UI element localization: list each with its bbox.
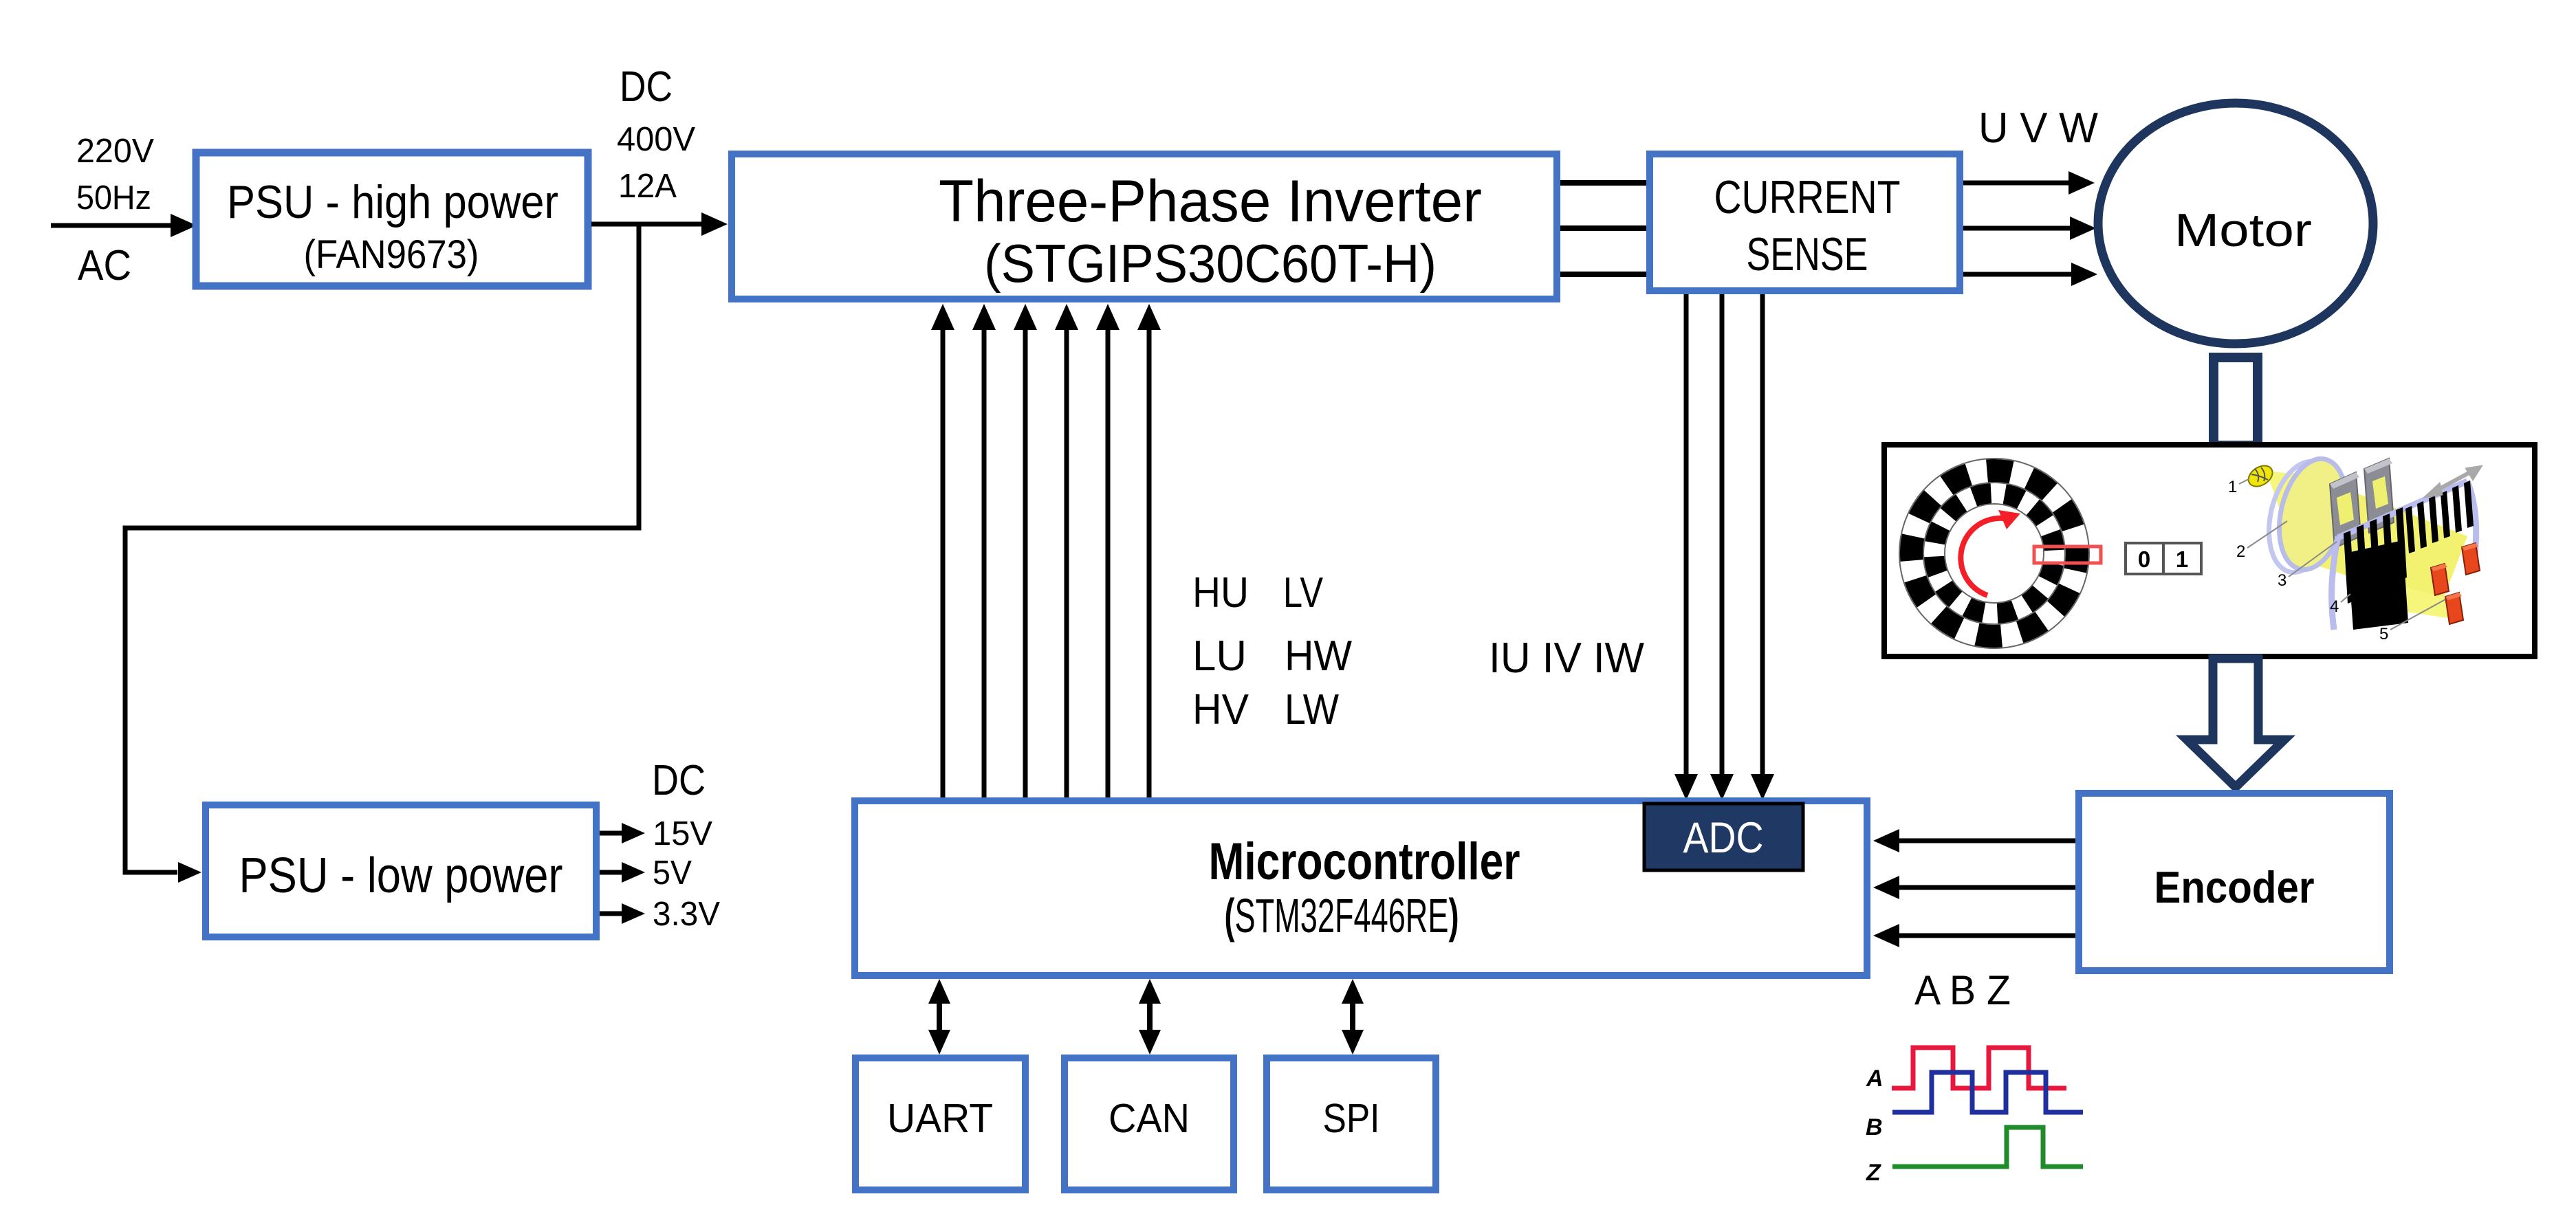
svg-text:PSU - high power: PSU - high power <box>227 176 558 228</box>
wire gate signal HU MCU to inverter <box>931 304 954 797</box>
beam to lower detector <box>2381 582 2455 619</box>
mask plates (3) <box>2330 459 2394 548</box>
motion double arrow <box>2423 465 2482 498</box>
svg-text:2: 2 <box>2236 542 2245 561</box>
svg-text:1: 1 <box>2228 478 2237 496</box>
svg-text:15V: 15V <box>653 815 712 852</box>
svg-text:HU: HU <box>1192 569 1249 617</box>
wire phase V inverter to current sense <box>1560 225 1646 231</box>
block ADC peripheral <box>1644 804 1803 870</box>
svg-text:3: 3 <box>2278 571 2286 590</box>
red sensor window rectangle <box>2034 547 2101 563</box>
wire MCU to CAN bidirectional <box>1139 979 1161 1055</box>
block Microcontroller (STM32F446RE) <box>855 801 1867 975</box>
svg-text:SENSE: SENSE <box>1747 228 1868 280</box>
photodetectors (5) <box>2431 543 2480 624</box>
block Three-Phase Inverter (STGIPS30C60T-H) <box>732 154 1557 299</box>
block SPI <box>1267 1058 1436 1190</box>
svg-text:Three-Phase Inverter: Three-Phase Inverter <box>939 168 1482 234</box>
encoder code disk <box>1899 459 2089 648</box>
svg-text:(FAN9673): (FAN9673) <box>304 232 479 277</box>
wire phase V to motor <box>1963 217 2096 240</box>
svg-text:(STGIPS30C60T-H): (STGIPS30C60T-H) <box>984 233 1437 294</box>
lens (2) <box>2259 452 2357 579</box>
svg-text:CURRENT: CURRENT <box>1714 171 1901 223</box>
svg-text:50Hz: 50Hz <box>76 179 151 217</box>
block CURRENT SENSE <box>1650 154 1960 291</box>
encoder channel B waveform (blue) <box>1892 1072 2083 1112</box>
wire gate signal HW MCU to inverter <box>1096 304 1120 797</box>
svg-text:A: A <box>1866 1066 1884 1092</box>
svg-text:Z: Z <box>1866 1160 1881 1186</box>
beam through mask toward scale <box>2308 485 2467 608</box>
wire phase U to motor <box>1963 171 2095 195</box>
svg-text:Microcontroller: Microcontroller <box>1209 832 1520 891</box>
wire MCU to UART bidirectional <box>928 979 950 1055</box>
rotation direction red arrow <box>1961 510 2020 595</box>
block CAN <box>1065 1058 1234 1190</box>
wire phase W inverter to current sense <box>1560 272 1646 277</box>
wire DC bus PSU1 to inverter <box>591 212 728 236</box>
block PSU - high power (FAN9673) <box>196 153 588 286</box>
svg-text:1: 1 <box>2176 547 2188 572</box>
wire MCU to SPI bidirectional <box>1342 979 1364 1055</box>
svg-text:UART: UART <box>887 1096 993 1141</box>
wire current feedback to ADC <box>1710 294 1734 800</box>
svg-text:(STM32F446RE): (STM32F446RE) <box>1225 889 1459 942</box>
wire current feedback to ADC <box>1751 294 1774 800</box>
svg-text:SPI: SPI <box>1323 1096 1380 1141</box>
wire gate signal LW MCU to inverter <box>1137 304 1161 797</box>
wire PSU2 15V output <box>600 823 645 843</box>
svg-text:400V: 400V <box>617 121 695 158</box>
svg-text:3.3V: 3.3V <box>653 896 720 933</box>
svg-text:LV: LV <box>1283 569 1324 617</box>
svg-text:LU: LU <box>1192 632 1247 680</box>
svg-text:DC: DC <box>620 63 673 111</box>
svg-text:220V: 220V <box>76 133 154 170</box>
svg-text:0: 0 <box>2138 547 2150 572</box>
svg-text:Motor: Motor <box>2174 204 2312 256</box>
svg-text:HV: HV <box>1192 686 1249 733</box>
svg-text:IU IV IW: IU IV IW <box>1489 634 1644 682</box>
svg-text:PSU - low power: PSU - low power <box>239 848 563 903</box>
svg-text:DC: DC <box>652 757 706 804</box>
svg-text:5V: 5V <box>653 854 692 892</box>
svg-text:4: 4 <box>2330 597 2339 616</box>
light cone from lamp <box>2267 472 2338 571</box>
wire encoder signal to MCU <box>1873 876 2075 899</box>
svg-text:ADC: ADC <box>1683 814 1764 862</box>
encoder channel A waveform (red) <box>1892 1048 2066 1088</box>
svg-text:LW: LW <box>1285 686 1339 733</box>
svg-text:HW: HW <box>1285 632 1352 680</box>
wire gate signal LU MCU to inverter <box>972 304 996 797</box>
graduated scale (4) <box>2332 481 2476 630</box>
wire encoder signal to MCU <box>1873 924 2075 947</box>
wire phase W to motor <box>1963 263 2097 286</box>
lamp (1) <box>2245 461 2276 491</box>
wire gate signal HV MCU to inverter <box>1014 304 1037 797</box>
connector motor shaft to encoder disk picture <box>2214 357 2258 445</box>
svg-text:AC: AC <box>78 242 131 289</box>
block UART <box>855 1058 1025 1190</box>
block PSU - low power <box>206 805 596 937</box>
svg-text:U V W: U V W <box>1978 104 2098 152</box>
wire phase U inverter to current sense <box>1560 180 1646 186</box>
wire PSU2 3.3V output <box>600 903 645 924</box>
block Encoder <box>2079 793 2390 971</box>
part number labels 1-5 <box>2228 478 2445 643</box>
wire DC branch down to PSU2 <box>125 224 639 883</box>
svg-text:CAN: CAN <box>1109 1096 1190 1141</box>
shaft position arrow picture to Encoder block <box>2187 659 2284 787</box>
encoder index Z waveform (green) <box>1892 1127 2083 1167</box>
svg-text:12A: 12A <box>618 168 677 205</box>
svg-text:A B Z: A B Z <box>1914 967 2011 1013</box>
svg-text:5: 5 <box>2379 625 2388 643</box>
wire current feedback to ADC <box>1674 294 1698 800</box>
wire PSU2 5V output <box>600 862 645 883</box>
wire gate signal LV MCU to inverter <box>1055 304 1078 797</box>
wire encoder signal to MCU <box>1873 829 2075 852</box>
encoder principle picture frame <box>1884 445 2535 656</box>
svg-text:Encoder: Encoder <box>2154 862 2315 912</box>
wire AC input arrow <box>51 214 197 237</box>
0 1 readout table <box>2126 543 2201 574</box>
svg-text:B: B <box>1866 1114 1883 1140</box>
motor M1 <box>2098 103 2373 344</box>
